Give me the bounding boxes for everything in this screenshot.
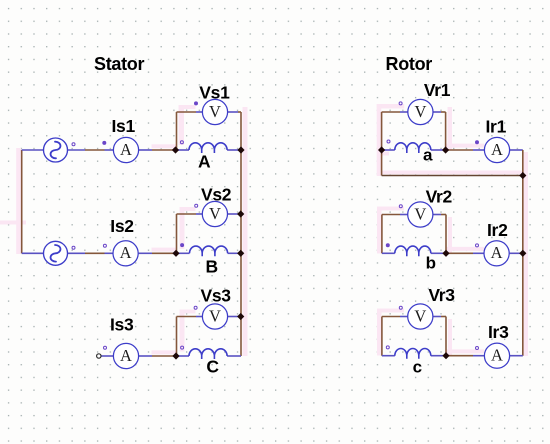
wire node to coil A <box>176 149 190 151</box>
voltmeter Vs2 <box>202 201 227 226</box>
node rotor a-left <box>378 146 385 153</box>
svg-text:Ir3: Ir3 <box>488 322 509 342</box>
wire highlight rotor loop2 <box>377 207 404 211</box>
wire source2 to Is2 <box>68 252 86 254</box>
wire highlight rotor right rail <box>524 152 529 356</box>
wire highlight rotor bottom wire <box>381 171 523 175</box>
wire highlight stator loop2 <box>180 207 196 211</box>
svg-text:Is3: Is3 <box>110 315 134 335</box>
wire source1 to Is1 <box>68 149 86 151</box>
node stator B-right <box>237 250 244 257</box>
pin marker Vr3 <box>399 306 402 309</box>
wire highlight stray left <box>0 221 26 225</box>
wire Vs2 top left lead <box>177 213 197 215</box>
node stator A-left <box>172 146 179 153</box>
pin marker inductor C <box>181 346 184 349</box>
node stator Vs3-right <box>237 313 244 320</box>
svg-text:A: A <box>491 346 503 365</box>
wire Vr2 right lead <box>433 214 441 216</box>
voltmeter Vr2 <box>408 202 433 227</box>
wire V1 lead to source Vs <box>22 149 44 151</box>
wire Ir1 to right rail <box>510 149 523 151</box>
wire highlight stator loop1 <box>179 105 196 109</box>
wire Vs1 top left lead <box>177 111 197 113</box>
pin marker inductor a <box>387 140 390 143</box>
node stator C-left <box>172 352 179 359</box>
wire Ir3 to right rail <box>510 355 523 357</box>
ammeter Is2 <box>113 241 138 266</box>
wire highlight stator row1 <box>152 144 177 148</box>
svg-text:A: A <box>120 140 132 159</box>
pin marker inductor A <box>180 141 183 144</box>
wire Vr3 loop right <box>445 317 447 356</box>
ammeter Is3 <box>113 343 138 368</box>
wire Vs3 loop left <box>176 317 178 357</box>
svg-text:V: V <box>209 102 221 121</box>
pin marker Vr2 <box>399 205 402 208</box>
node rotor bus-right <box>519 172 526 179</box>
wire Vs2 loop left <box>176 214 178 253</box>
wire Vr2 loop left <box>381 215 383 254</box>
wire highlight stator loop3 <box>180 310 196 314</box>
pin marker Vs3 <box>194 306 197 309</box>
ammeter Ir1 <box>484 137 509 162</box>
wire highlight rotor row2 <box>446 247 484 251</box>
wire Vr2 loop right <box>445 215 447 254</box>
wire coil B to right rail <box>228 252 241 254</box>
pin marker Is3 <box>104 346 107 349</box>
wire Vs1 loop left <box>176 112 178 150</box>
wire highlight rotor row1 <box>446 144 484 148</box>
pin marker Is1 <box>103 141 106 144</box>
node rotor rail-Ir2 <box>519 250 526 257</box>
svg-text:Is1: Is1 <box>112 116 136 136</box>
svg-text:V: V <box>414 204 426 223</box>
wire rotor right rail <box>522 150 524 356</box>
svg-text:V: V <box>209 204 221 223</box>
wire coil A to right rail <box>227 149 241 151</box>
svg-text:A: A <box>120 346 132 365</box>
wire lead to source2 <box>22 252 44 254</box>
node rotor b-right <box>442 250 449 257</box>
wire Vr2 top left lead <box>382 214 400 216</box>
svg-text:Rotor: Rotor <box>386 54 433 74</box>
svg-text:A: A <box>491 243 503 262</box>
wire coil a to node <box>431 149 446 151</box>
wire highlight rotor loop1 <box>377 104 405 109</box>
pin marker Vs1 <box>195 102 198 105</box>
node stator Vs2-right <box>237 210 244 217</box>
wire highlight stator right rail <box>243 107 248 356</box>
open terminal Is3 input <box>97 354 101 358</box>
wire node c to Ir3 <box>446 355 473 357</box>
wire highlight rotor row3 <box>446 349 484 353</box>
inductor b <box>395 246 431 256</box>
wire loop to coil b <box>382 252 395 254</box>
pin marker Vs2 <box>195 204 198 207</box>
voltmeter Vr3 <box>408 304 433 329</box>
wire Vr1 loop left <box>381 112 383 176</box>
AC source V2 <box>44 241 68 265</box>
wire coil c to node <box>431 355 446 357</box>
svg-text:C: C <box>206 356 219 376</box>
wire Vr1 top left lead <box>382 111 400 113</box>
node rotor c-right <box>442 352 449 359</box>
svg-text:Vr1: Vr1 <box>424 80 451 100</box>
inductor B <box>190 246 228 256</box>
wire highlight stator row3 <box>152 350 177 354</box>
pin marker inductor b <box>386 244 389 247</box>
svg-text:Is2: Is2 <box>110 216 134 236</box>
inductor C <box>189 349 227 359</box>
wire loop to coil c <box>382 355 395 357</box>
inductor A <box>189 143 227 153</box>
svg-text:V: V <box>414 102 426 121</box>
wire Ir2 to right rail <box>510 252 523 254</box>
wire node b to Ir2 <box>446 252 473 254</box>
wire Vs3 right lead <box>228 316 238 318</box>
node stator A-right <box>237 146 244 153</box>
svg-text:Vs2: Vs2 <box>201 184 232 204</box>
pin marker Is2 <box>103 244 106 247</box>
svg-text:V: V <box>414 306 426 325</box>
pin marker source V1 <box>72 143 75 146</box>
wire Vr3 loop left <box>381 317 383 356</box>
svg-text:Ir2: Ir2 <box>487 220 508 240</box>
pin marker Vr1 <box>399 102 402 105</box>
node stator B-left <box>172 250 179 257</box>
svg-text:c: c <box>413 358 422 377</box>
wire node to coil a <box>382 149 395 151</box>
wire highlight rotor loop3 <box>377 309 404 313</box>
ammeter Ir3 <box>484 343 509 368</box>
pin marker source V2 <box>72 246 75 249</box>
svg-text:Stator: Stator <box>94 54 145 74</box>
wire Vr3 right lead <box>433 316 441 318</box>
svg-text:B: B <box>206 256 218 276</box>
wire Is1 to node <box>139 149 152 151</box>
voltmeter Vs3 <box>202 304 227 329</box>
wire coil b to node <box>431 252 446 254</box>
wire left rail <box>21 150 23 253</box>
wire Is3 to node <box>139 355 152 357</box>
wire Is2 to node <box>139 252 152 254</box>
voltmeter Vr1 <box>408 99 433 124</box>
ammeter Ir2 <box>484 241 509 266</box>
pin marker inductor c <box>386 346 389 349</box>
wire Vr1 loop right <box>445 112 447 150</box>
svg-text:Ir1: Ir1 <box>486 116 507 136</box>
svg-text:a: a <box>423 146 433 165</box>
wire node a to Ir1 <box>446 149 473 151</box>
wire node to coil B <box>176 252 190 254</box>
wire coil C to right rail <box>227 355 241 357</box>
ammeter Is1 <box>113 137 138 162</box>
svg-text:A: A <box>198 151 211 171</box>
wire Vr1 right lead <box>433 111 441 113</box>
wire Vs2 right lead <box>228 213 238 215</box>
wire Vs3 top left lead <box>177 316 197 318</box>
inductor a <box>395 143 431 153</box>
svg-text:V: V <box>209 306 221 325</box>
voltmeter Vs1 <box>202 99 227 124</box>
svg-text:Vr3: Vr3 <box>428 285 455 305</box>
wire rotor bottom bus <box>382 175 523 177</box>
wire Vr3 top left lead <box>382 316 400 318</box>
pin marker inductor B <box>181 244 184 247</box>
svg-text:b: b <box>426 254 436 273</box>
pin marker Ir2 <box>476 244 479 247</box>
pin marker Ir1 <box>476 141 479 144</box>
svg-text:Vs1: Vs1 <box>199 83 230 103</box>
svg-text:A: A <box>491 140 503 159</box>
wire terminal to Is3 <box>101 355 113 357</box>
node rotor a-right <box>442 146 449 153</box>
wire highlight stator row2 <box>152 248 177 252</box>
wire Vs1 right lead <box>228 111 238 113</box>
pin marker Ir3 <box>476 347 479 350</box>
AC source V1 <box>44 138 68 162</box>
wire stator right rail <box>240 112 242 356</box>
svg-text:Vs3: Vs3 <box>201 286 232 306</box>
wire node to coil C <box>176 355 189 357</box>
wire highlight left rail <box>16 148 21 254</box>
svg-text:Vr2: Vr2 <box>426 187 453 207</box>
inductor c <box>395 349 431 359</box>
svg-text:A: A <box>120 243 132 262</box>
